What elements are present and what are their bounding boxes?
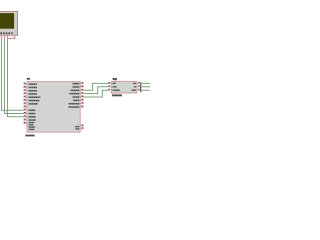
LCD frame [0, 12, 18, 36]
junction dots [140, 83, 141, 91]
label U1 [27, 78, 30, 80]
wire U1 to U2 pin A [84, 83, 108, 90]
U1 left pins [23, 84, 26, 123]
U2 left pin number blobs [108, 82, 110, 90]
LCD pin label blobs [0, 32, 12, 34]
U1 right pins [80, 84, 83, 129]
red tick under U2 label [114, 80, 117, 81]
wire LCD pin1 to U1 RE0 [2, 40, 24, 110]
microcontroller U1 body [27, 82, 80, 133]
wire LCD pin3 to U1 RE2 [8, 40, 24, 116]
value PIC16F877A [25, 135, 34, 137]
wire LCD pin2 to U1 RE1 [5, 40, 24, 113]
ADC U2 body [111, 81, 136, 93]
LCD module LCD1 (cut off at left edge) [0, 12, 18, 41]
wire U1 to U2 pin B [84, 87, 108, 94]
U2 right pin label rows [131, 83, 136, 91]
U2 right pins [137, 83, 141, 90]
U2 left pin label rows [112, 83, 120, 91]
LCD pin 3 stub [7, 36, 9, 41]
U2 left pins [108, 83, 112, 90]
label U2 [113, 78, 117, 80]
U1 left pin label rows [28, 83, 40, 130]
U1 right pin number blobs [81, 82, 83, 128]
LCD pin 4 stub with bend to pin3 net [8, 36, 15, 39]
wire U2 right pin B to edge [140, 86, 150, 88]
wire U1 to U2 pin C [84, 90, 108, 97]
value ADC0831 [112, 94, 122, 96]
LCD screen [0, 13, 14, 29]
U1 left pin number blobs [24, 83, 26, 123]
U1 right pin label rows [68, 83, 79, 130]
junction bar right of U2 [140, 82, 142, 92]
LCD pin 2 stub [4, 36, 6, 41]
wire U2 right pin C to edge [140, 89, 150, 91]
U2 right pin number blobs [138, 82, 140, 90]
LCD pin 1 stub [1, 36, 3, 41]
wire U2 right pin A to edge [140, 82, 150, 84]
